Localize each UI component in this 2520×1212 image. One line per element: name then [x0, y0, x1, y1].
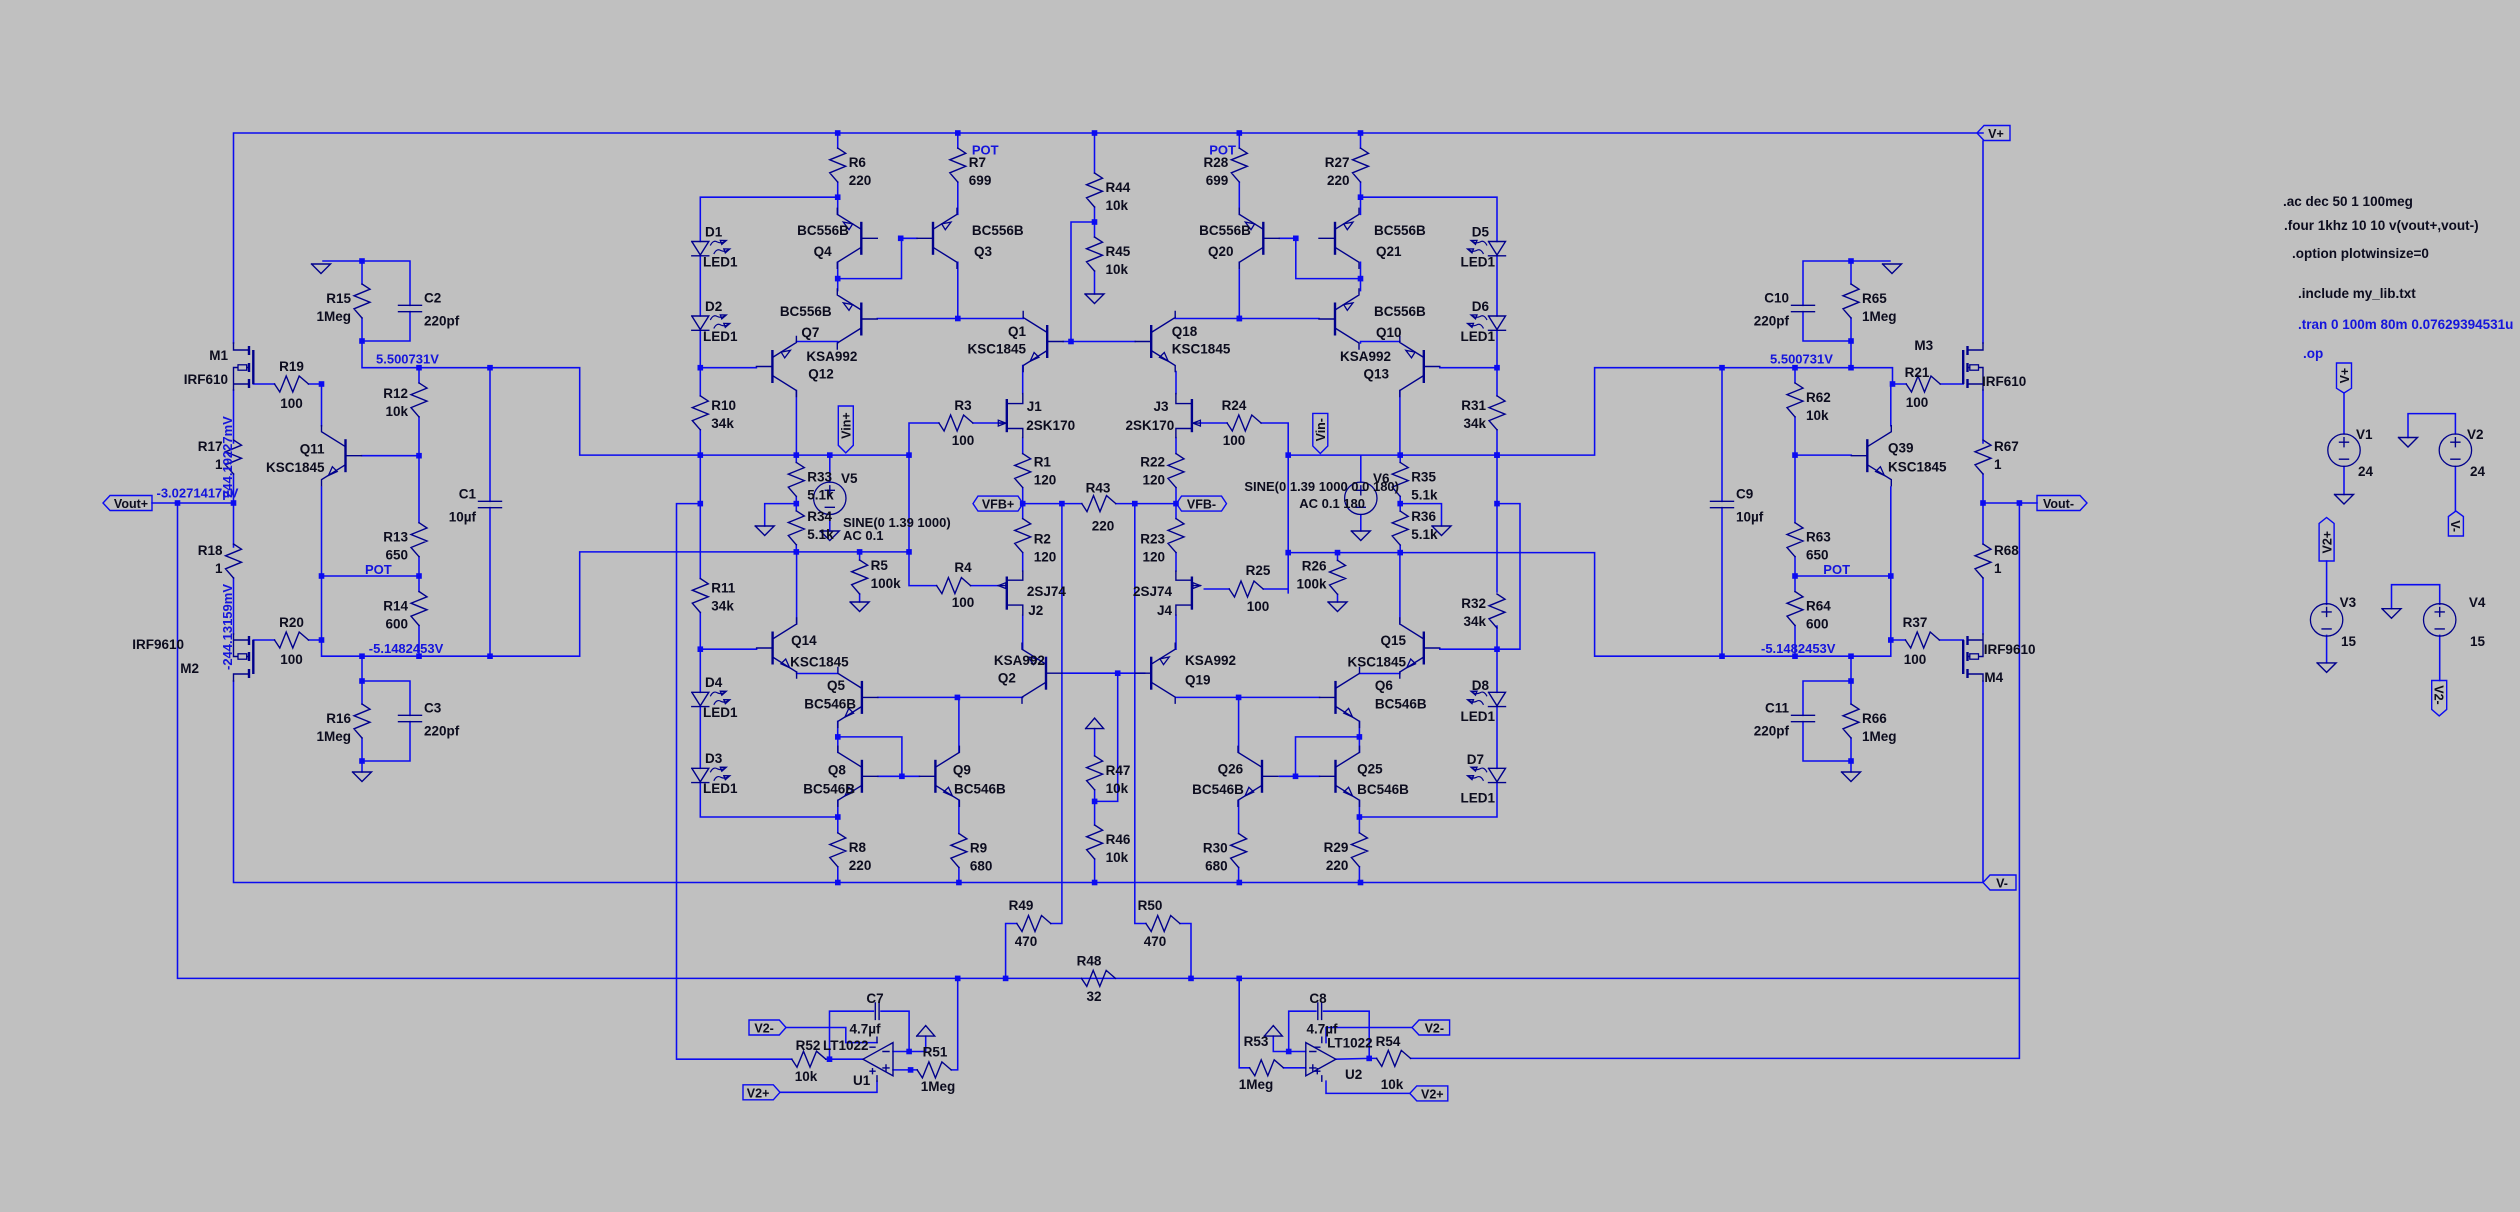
svg-text:1Meg: 1Meg	[316, 729, 351, 744]
svg-text:Q25: Q25	[1357, 762, 1383, 777]
svg-text:R25: R25	[1246, 563, 1271, 578]
svg-text:J4: J4	[1157, 603, 1173, 618]
svg-text:5.1k: 5.1k	[807, 487, 834, 502]
svg-text:Vin+: Vin+	[840, 412, 854, 439]
svg-text:VFB+: VFB+	[982, 498, 1014, 512]
svg-text:SINE(0 1.39 1000 0 0 180): SINE(0 1.39 1000 0 0 180)	[1244, 479, 1399, 494]
svg-text:2SK170: 2SK170	[1026, 418, 1075, 433]
svg-text:10k: 10k	[1106, 262, 1129, 277]
svg-text:IRF610: IRF610	[1982, 374, 2026, 389]
svg-text:BC546B: BC546B	[1375, 697, 1427, 712]
svg-text:4.7µf: 4.7µf	[849, 1022, 881, 1037]
svg-text:IRF9610: IRF9610	[1984, 642, 2036, 657]
svg-text:KSA992: KSA992	[806, 349, 857, 364]
svg-text:34k: 34k	[1463, 614, 1486, 629]
svg-text:120: 120	[1034, 473, 1057, 488]
svg-text:V-: V-	[2448, 520, 2462, 532]
svg-text:220pf: 220pf	[1754, 314, 1790, 329]
svg-text:5.1k: 5.1k	[1411, 487, 1438, 502]
svg-text:650: 650	[385, 548, 408, 563]
svg-text:V3: V3	[2340, 595, 2357, 610]
svg-text:V2-: V2-	[1425, 1022, 1444, 1036]
svg-text:R14: R14	[383, 599, 408, 614]
svg-text:D7: D7	[1467, 752, 1484, 767]
svg-text:34k: 34k	[711, 416, 734, 431]
svg-text:1Meg: 1Meg	[1239, 1077, 1274, 1092]
svg-text:1: 1	[1994, 561, 2002, 576]
svg-text:V2+: V2+	[747, 1086, 770, 1100]
svg-text:.op: .op	[2303, 346, 2323, 361]
svg-text:R11: R11	[711, 581, 736, 596]
svg-text:BC556B: BC556B	[780, 304, 832, 319]
svg-text:J2: J2	[1028, 603, 1043, 618]
svg-text:R31: R31	[1461, 398, 1486, 413]
svg-text:Q10: Q10	[1376, 325, 1402, 340]
svg-text:KSC1845: KSC1845	[266, 460, 325, 475]
svg-text:699: 699	[1206, 173, 1229, 188]
svg-text:KSC1845: KSC1845	[967, 342, 1026, 357]
svg-text:Q3: Q3	[974, 244, 993, 259]
svg-text:BC556B: BC556B	[972, 223, 1024, 238]
svg-text:M2: M2	[180, 661, 199, 676]
svg-text:C10: C10	[1764, 291, 1789, 306]
svg-text:220: 220	[1327, 173, 1350, 188]
svg-text:AC 0.1: AC 0.1	[843, 528, 883, 543]
svg-text:680: 680	[1205, 859, 1228, 874]
svg-text:KSA992: KSA992	[1185, 653, 1236, 668]
svg-text:U2: U2	[1345, 1067, 1362, 1082]
svg-text:R2: R2	[1034, 532, 1051, 547]
svg-text:V2+: V2+	[1421, 1087, 1444, 1101]
svg-text:100k: 100k	[1296, 576, 1327, 591]
svg-text:220: 220	[849, 858, 872, 873]
svg-text:POT: POT	[1823, 562, 1850, 577]
svg-text:10k: 10k	[1381, 1077, 1404, 1092]
svg-text:R35: R35	[1411, 469, 1436, 484]
svg-text:R68: R68	[1994, 543, 2019, 558]
svg-text:C11: C11	[1765, 701, 1790, 716]
svg-text:LT1022: LT1022	[1327, 1036, 1373, 1051]
svg-text:Q5: Q5	[827, 678, 846, 693]
svg-text:15: 15	[2470, 634, 2486, 649]
svg-text:15: 15	[2341, 634, 2357, 649]
svg-text:C3: C3	[424, 701, 442, 716]
svg-text:Q2: Q2	[998, 671, 1016, 686]
svg-text:D8: D8	[1472, 678, 1490, 693]
svg-text:R53: R53	[1244, 1034, 1269, 1049]
svg-text:U1: U1	[853, 1073, 871, 1088]
svg-text:R23: R23	[1140, 532, 1165, 547]
svg-text:Q39: Q39	[1888, 441, 1914, 456]
svg-text:220: 220	[1092, 519, 1115, 534]
svg-text:1Meg: 1Meg	[316, 309, 351, 324]
svg-text:32: 32	[1086, 989, 1101, 1004]
svg-text:AC 0.1 180: AC 0.1 180	[1299, 496, 1365, 511]
svg-text:R50: R50	[1138, 898, 1163, 913]
svg-text:Q6: Q6	[1375, 678, 1394, 693]
svg-text:R19: R19	[279, 359, 304, 374]
svg-text:220: 220	[1326, 858, 1349, 873]
svg-text:10k: 10k	[385, 404, 408, 419]
svg-text:Vin-: Vin-	[1314, 418, 1328, 441]
svg-text:R33: R33	[807, 469, 832, 484]
svg-text:10µf: 10µf	[449, 510, 477, 525]
svg-text:2SJ74: 2SJ74	[1027, 584, 1067, 599]
svg-text:R4: R4	[954, 560, 972, 575]
svg-text:10µf: 10µf	[1736, 510, 1764, 525]
svg-text:KSC1845: KSC1845	[1172, 342, 1231, 357]
svg-text:V2+: V2+	[2320, 531, 2334, 554]
svg-text:-244.13159mV: -244.13159mV	[220, 584, 235, 670]
svg-text:D6: D6	[1472, 299, 1490, 314]
svg-text:Q14: Q14	[791, 633, 817, 648]
svg-text:J3: J3	[1153, 399, 1169, 414]
svg-text:D4: D4	[705, 675, 723, 690]
svg-text:Q1: Q1	[1008, 324, 1027, 339]
svg-text:D1: D1	[705, 225, 723, 240]
svg-text:M4: M4	[1984, 670, 2003, 685]
svg-text:699: 699	[969, 173, 992, 188]
svg-text:R24: R24	[1222, 398, 1247, 413]
svg-text:D5: D5	[1472, 225, 1490, 240]
svg-text:R13: R13	[383, 530, 408, 545]
svg-text:R48: R48	[1077, 954, 1102, 969]
svg-text:R43: R43	[1086, 481, 1111, 496]
svg-text:100: 100	[952, 433, 975, 448]
svg-text:100: 100	[280, 652, 303, 667]
svg-text:5.1k: 5.1k	[1411, 527, 1438, 542]
svg-text:Q13: Q13	[1363, 367, 1389, 382]
svg-text:Q7: Q7	[801, 325, 819, 340]
svg-text:R3: R3	[954, 398, 972, 413]
svg-text:V-: V-	[1996, 877, 2008, 891]
svg-text:1: 1	[215, 561, 223, 576]
svg-text:V2-: V2-	[754, 1022, 773, 1036]
svg-text:LED1: LED1	[703, 705, 738, 720]
svg-text:R22: R22	[1140, 455, 1165, 470]
svg-text:LED1: LED1	[1460, 709, 1495, 724]
svg-text:LED1: LED1	[1460, 255, 1495, 270]
svg-text:V1: V1	[2356, 427, 2373, 442]
svg-text:R27: R27	[1325, 155, 1350, 170]
svg-text:-5.1482453V: -5.1482453V	[1761, 641, 1836, 656]
svg-text:R32: R32	[1461, 596, 1486, 611]
svg-text:R51: R51	[923, 1044, 948, 1059]
svg-text:R62: R62	[1806, 390, 1831, 405]
svg-text:Q9: Q9	[953, 763, 971, 778]
svg-text:100k: 100k	[871, 576, 902, 591]
svg-text:VFB-: VFB-	[1187, 498, 1216, 512]
svg-text:R44: R44	[1106, 180, 1131, 195]
svg-text:1Meg: 1Meg	[1862, 729, 1897, 744]
svg-text:BC546B: BC546B	[1192, 782, 1244, 797]
svg-text:10k: 10k	[795, 1069, 818, 1084]
svg-text:C8: C8	[1309, 991, 1327, 1006]
svg-text:R7: R7	[969, 155, 986, 170]
svg-text:120: 120	[1034, 550, 1057, 565]
svg-text:C2: C2	[424, 291, 441, 306]
svg-text:V2-: V2-	[2431, 685, 2445, 704]
svg-text:KSC1845: KSC1845	[1888, 460, 1947, 475]
svg-text:C9: C9	[1736, 487, 1753, 502]
svg-text:LED1: LED1	[1460, 791, 1495, 806]
svg-text:Q18: Q18	[1172, 324, 1198, 339]
svg-text:R18: R18	[198, 543, 223, 558]
svg-text:BC546B: BC546B	[954, 781, 1006, 796]
svg-text:R29: R29	[1324, 840, 1349, 855]
svg-text:R21: R21	[1905, 365, 1930, 380]
svg-text:R8: R8	[849, 840, 867, 855]
svg-text:100: 100	[1223, 433, 1246, 448]
svg-text:R34: R34	[807, 509, 832, 524]
svg-text:100: 100	[1906, 395, 1929, 410]
svg-text:V2: V2	[2467, 427, 2484, 442]
svg-text:.tran 0 100m 80m 0.07629394531: .tran 0 100m 80m 0.07629394531u	[2298, 317, 2513, 332]
svg-text:R47: R47	[1106, 763, 1131, 778]
svg-text:M1: M1	[209, 348, 228, 363]
svg-text:R54: R54	[1376, 1034, 1401, 1049]
svg-text:BC556B: BC556B	[1374, 223, 1426, 238]
svg-text:1Meg: 1Meg	[921, 1079, 956, 1094]
svg-text:Q19: Q19	[1185, 673, 1211, 688]
svg-text:600: 600	[385, 617, 408, 632]
svg-text:D3: D3	[705, 751, 723, 766]
svg-text:LED1: LED1	[703, 255, 738, 270]
svg-text:Q8: Q8	[828, 763, 847, 778]
svg-text:KSC1845: KSC1845	[790, 654, 849, 669]
svg-text:100: 100	[1904, 652, 1927, 667]
svg-text:BC546B: BC546B	[803, 781, 855, 796]
svg-text:Q11: Q11	[300, 442, 325, 457]
svg-text:10k: 10k	[1106, 850, 1129, 865]
svg-text:650: 650	[1806, 548, 1829, 563]
svg-text:Vout-: Vout-	[2043, 497, 2074, 511]
svg-text:LED1: LED1	[1460, 329, 1495, 344]
svg-text:220pf: 220pf	[424, 724, 460, 739]
svg-text:LED1: LED1	[703, 781, 738, 796]
svg-text:Q20: Q20	[1208, 244, 1234, 259]
svg-text:R67: R67	[1994, 439, 2019, 454]
svg-text:34k: 34k	[1463, 416, 1486, 431]
svg-text:.ac dec 50 1 100meg: .ac dec 50 1 100meg	[2283, 194, 2413, 209]
svg-text:220: 220	[849, 173, 872, 188]
svg-text:Q21: Q21	[1376, 244, 1402, 259]
svg-text:BC556B: BC556B	[797, 223, 849, 238]
svg-text:R20: R20	[279, 615, 304, 630]
svg-text:C7: C7	[866, 991, 883, 1006]
svg-text:C1: C1	[459, 487, 477, 502]
svg-text:.option plotwinsize=0: .option plotwinsize=0	[2292, 246, 2429, 261]
svg-text:10k: 10k	[1106, 198, 1129, 213]
svg-text:V5: V5	[841, 471, 858, 486]
svg-text:-5.1482453V: -5.1482453V	[369, 641, 444, 656]
svg-text:R1: R1	[1034, 455, 1052, 470]
svg-text:R36: R36	[1411, 509, 1436, 524]
svg-text:R45: R45	[1106, 244, 1131, 259]
svg-text:LT1022: LT1022	[823, 1038, 869, 1053]
svg-text:R52: R52	[796, 1038, 821, 1053]
svg-text:R15: R15	[326, 291, 351, 306]
svg-text:R65: R65	[1862, 291, 1887, 306]
svg-text:Q12: Q12	[808, 367, 834, 382]
svg-text:R26: R26	[1302, 558, 1327, 573]
svg-text:Q15: Q15	[1380, 633, 1406, 648]
svg-text:R12: R12	[383, 386, 408, 401]
svg-text:680: 680	[970, 859, 993, 874]
svg-text:Vout+: Vout+	[114, 497, 148, 511]
svg-text:Q26: Q26	[1218, 762, 1244, 777]
svg-text:M3: M3	[1914, 338, 1933, 353]
svg-text:1Meg: 1Meg	[1862, 309, 1897, 324]
svg-text:R16: R16	[326, 711, 351, 726]
svg-text:BC556B: BC556B	[1199, 223, 1251, 238]
svg-text:10k: 10k	[1106, 781, 1129, 796]
svg-text:R63: R63	[1806, 530, 1831, 545]
svg-text:120: 120	[1142, 473, 1165, 488]
svg-text:BC556B: BC556B	[1374, 304, 1426, 319]
svg-text:POT: POT	[365, 562, 392, 577]
svg-text:220pf: 220pf	[1754, 724, 1790, 739]
svg-text:LED1: LED1	[703, 329, 738, 344]
svg-text:24: 24	[2470, 464, 2486, 479]
svg-text:IRF610: IRF610	[184, 372, 228, 387]
svg-text:R64: R64	[1806, 599, 1831, 614]
svg-text:BC546B: BC546B	[1357, 782, 1409, 797]
svg-text:BC546B: BC546B	[804, 697, 856, 712]
svg-text:R49: R49	[1009, 898, 1034, 913]
svg-text:R66: R66	[1862, 711, 1887, 726]
svg-text:120: 120	[1142, 550, 1165, 565]
svg-text:KSA992: KSA992	[1340, 349, 1391, 364]
svg-text:Q4: Q4	[814, 244, 833, 259]
svg-text:100: 100	[1247, 599, 1270, 614]
svg-text:R17: R17	[198, 439, 223, 454]
svg-text:470: 470	[1015, 934, 1038, 949]
svg-text:J1: J1	[1027, 399, 1043, 414]
svg-text:10k: 10k	[1806, 408, 1829, 423]
svg-text:5.500731V: 5.500731V	[1770, 352, 1833, 367]
svg-text:5.500731V: 5.500731V	[376, 352, 439, 367]
svg-text:R5: R5	[871, 558, 889, 573]
svg-text:600: 600	[1806, 617, 1829, 632]
svg-text:.four 1khz 10 10 v(vout+,vout-: .four 1khz 10 10 v(vout+,vout-)	[2284, 218, 2479, 233]
svg-text:.include my_lib.txt: .include my_lib.txt	[2298, 286, 2416, 301]
svg-text:R9: R9	[970, 841, 987, 856]
svg-text:2SJ74: 2SJ74	[1133, 584, 1173, 599]
svg-text:220pf: 220pf	[424, 314, 460, 329]
svg-text:V+: V+	[1988, 127, 2004, 141]
svg-text:34k: 34k	[711, 599, 734, 614]
svg-text:R30: R30	[1203, 841, 1228, 856]
svg-text:KSA992: KSA992	[994, 653, 1045, 668]
svg-text:5.1k: 5.1k	[807, 527, 834, 542]
svg-text:V4: V4	[2469, 595, 2486, 610]
svg-text:2SK170: 2SK170	[1126, 418, 1175, 433]
svg-text:R46: R46	[1106, 832, 1131, 847]
svg-text:244.19227mV: 244.19227mV	[220, 416, 235, 498]
svg-text:R10: R10	[711, 398, 736, 413]
svg-text:KSC1845: KSC1845	[1347, 654, 1406, 669]
svg-text:POT: POT	[1209, 143, 1236, 158]
svg-text:V+: V+	[2338, 368, 2352, 384]
svg-text:R6: R6	[849, 155, 867, 170]
svg-text:24: 24	[2358, 464, 2374, 479]
svg-text:100: 100	[280, 396, 303, 411]
svg-text:IRF9610: IRF9610	[132, 637, 184, 652]
svg-text:R37: R37	[1903, 615, 1928, 630]
svg-text:470: 470	[1144, 934, 1167, 949]
svg-text:100: 100	[952, 595, 975, 610]
svg-text:1: 1	[1994, 457, 2002, 472]
svg-text:D2: D2	[705, 299, 722, 314]
svg-text:4.7µf: 4.7µf	[1306, 1022, 1338, 1037]
